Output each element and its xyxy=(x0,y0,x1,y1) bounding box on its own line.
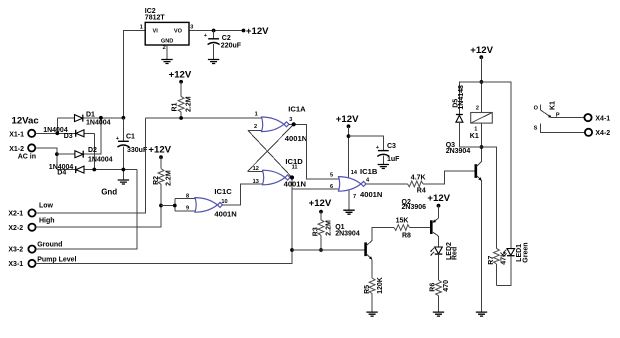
svg-text:AC in: AC in xyxy=(18,154,36,161)
terminal X4-2 xyxy=(585,129,592,136)
svg-text:1N4004: 1N4004 xyxy=(88,157,113,164)
node D1/D2 cathodes junction xyxy=(99,116,103,120)
svg-text:X1-1: X1-1 xyxy=(9,131,24,138)
wire contact to X4-1 xyxy=(552,117,585,119)
wire Q1 collector to R8 xyxy=(372,228,394,241)
terminal X2-2 xyxy=(28,224,35,231)
svg-text:+12V: +12V xyxy=(148,144,171,155)
resistor R2 2.2M xyxy=(153,157,173,205)
node X1-2/D2 junction xyxy=(55,152,59,156)
node C1/ground tap on DC- rail xyxy=(122,168,126,172)
wire LED1 branch from tap xyxy=(481,82,510,249)
svg-text:1N4148: 1N4148 xyxy=(458,85,465,110)
svg-text:11: 11 xyxy=(292,165,298,171)
svg-text:470: 470 xyxy=(443,280,450,292)
svg-text:R7: R7 xyxy=(488,256,495,265)
terminal X2-1 xyxy=(28,209,35,216)
svg-text:4001N: 4001N xyxy=(284,179,306,188)
svg-text:C2: C2 xyxy=(222,35,231,42)
svg-text:8: 8 xyxy=(186,194,189,200)
SECTION: gates xyxy=(145,70,400,252)
SECTION: right xyxy=(335,45,610,316)
svg-text:+12V: +12V xyxy=(309,198,332,209)
svg-text:7: 7 xyxy=(353,194,356,200)
terminal X4-1 xyxy=(584,114,591,121)
wire LED2 to R6 xyxy=(438,254,440,280)
capacitor C2 220uF xyxy=(204,33,242,49)
wire Pump Level to latch output node xyxy=(36,178,292,264)
svg-text:D4: D4 xyxy=(57,169,66,176)
svg-text:D2: D2 xyxy=(88,147,97,154)
svg-text:1: 1 xyxy=(255,112,258,118)
svg-text:High: High xyxy=(39,217,55,224)
wire D5 branch top xyxy=(459,82,481,114)
wire IC1B output to R4 xyxy=(366,183,408,185)
wire D3 anode riser xyxy=(93,133,95,169)
svg-text:R5: R5 xyxy=(364,285,371,294)
wire DC+ rail xyxy=(57,117,123,119)
svg-text:1: 1 xyxy=(140,24,143,30)
svg-text:10: 10 xyxy=(221,199,227,205)
capacitor C1 330uF xyxy=(116,134,148,155)
wire C2 to ground xyxy=(213,44,215,59)
svg-text:X3-1: X3-1 xyxy=(8,261,23,268)
wire latch set row to IC1A pin 1 xyxy=(145,117,262,119)
ground under IC1B pin 7 xyxy=(343,210,354,214)
svg-text:X1-2: X1-2 xyxy=(9,146,24,153)
wire D2 row xyxy=(57,118,101,154)
wire Q3 emitter to ground xyxy=(481,181,483,312)
svg-text:1uF: 1uF xyxy=(387,156,400,163)
junction C2 tap xyxy=(212,29,216,33)
node R3 bottom junction xyxy=(319,248,323,252)
resistor R7 47K xyxy=(482,147,508,286)
wire relay bottom to collector node xyxy=(481,123,483,147)
svg-text:D1: D1 xyxy=(86,112,95,119)
node DC+ rail end junction C1/IC2 xyxy=(122,116,126,120)
diode D5 1N4148 xyxy=(452,85,465,122)
wire High sensor to IC1C input xyxy=(36,206,161,228)
svg-text:K1: K1 xyxy=(550,101,557,110)
svg-text:12: 12 xyxy=(253,166,259,172)
node C3 tap junction xyxy=(347,134,351,138)
ground under C3 xyxy=(378,165,389,169)
wire C2 stem xyxy=(213,31,215,39)
ground under C1 xyxy=(118,180,129,184)
node IC1A output junction xyxy=(292,122,296,126)
svg-text:15K: 15K xyxy=(396,217,409,224)
resistor R6 470 xyxy=(429,280,450,312)
relay contact K1 xyxy=(534,101,585,133)
node relay/D5/R7/collector junction xyxy=(480,145,484,149)
ground under R6 xyxy=(433,312,444,316)
node D5/LED1 tap junction xyxy=(480,80,484,84)
svg-text:R4: R4 xyxy=(417,188,426,195)
svg-text:IC1A: IC1A xyxy=(288,105,306,114)
svg-text:4.7K: 4.7K xyxy=(411,174,426,181)
svg-text:Red: Red xyxy=(452,247,459,260)
svg-text:VO: VO xyxy=(174,28,183,34)
wire C3 tap xyxy=(349,136,384,150)
wire R2 junction to IC1C tied inputs xyxy=(161,205,175,207)
svg-text:GND: GND xyxy=(161,39,173,45)
wire D5 bottom to collector node xyxy=(459,122,481,147)
capacitor C3 1uF xyxy=(376,143,400,163)
svg-text:R8: R8 xyxy=(402,233,411,240)
svg-text:220uF: 220uF xyxy=(221,42,242,49)
wire Q2 collector to LED2 xyxy=(438,236,440,247)
svg-text:Ground: Ground xyxy=(37,241,62,248)
svg-text:3: 3 xyxy=(289,117,292,123)
svg-text:14: 14 xyxy=(351,170,358,176)
svg-text:+12V: +12V xyxy=(427,193,450,204)
svg-text:1N4004: 1N4004 xyxy=(86,120,111,127)
wire Q3 collector up to relay node xyxy=(481,147,483,161)
svg-text:4001N: 4001N xyxy=(285,134,307,143)
node tie bar feed junction xyxy=(173,204,177,208)
wire IC1D pin 12 stub xyxy=(248,170,264,172)
node R2 bottom / High riser junction xyxy=(159,204,163,208)
node IC1D output junction xyxy=(290,175,294,179)
svg-text:Green: Green xyxy=(522,242,529,262)
SECTION: bridge xyxy=(8,112,292,268)
wire DC- rail to X3-2 Ground terminal xyxy=(36,170,138,250)
resistor R8 15K xyxy=(394,217,411,239)
NOR gate IC1B 4001N xyxy=(330,167,382,200)
svg-text:2N3906: 2N3906 xyxy=(402,204,427,211)
wire IC1D output stub xyxy=(290,177,292,179)
svg-text:X3-2: X3-2 xyxy=(8,247,23,254)
ground under IC2 xyxy=(161,60,172,64)
wire C3 to ground xyxy=(382,156,384,165)
relay coil K1 xyxy=(470,105,493,139)
wire R4 to Q3 base xyxy=(423,171,475,184)
svg-text:IC1B: IC1B xyxy=(360,167,378,176)
svg-text:C3: C3 xyxy=(387,143,396,150)
svg-text:7812T: 7812T xyxy=(145,15,166,22)
wire X1-2 row xyxy=(35,148,57,170)
svg-text:VI: VI xyxy=(153,28,159,34)
diode D1 1N4004 xyxy=(75,112,111,127)
svg-text:4001N: 4001N xyxy=(214,209,236,218)
IC2 7812T regulator xyxy=(140,8,194,51)
wire C1 bottom to DC- rail and ground xyxy=(122,146,124,179)
node D3/D4 anodes junction xyxy=(92,168,96,172)
ground under R5 xyxy=(366,312,377,316)
resistor R1 2.2M xyxy=(172,82,193,118)
wire VO output of IC2 to +12V xyxy=(189,30,244,32)
wire IC1B pin 14 power stem xyxy=(348,126,350,178)
wire IC2 GND pin to ground xyxy=(166,45,168,59)
NOR gate IC1A 4001N xyxy=(254,105,307,143)
NOR gate IC1C 4001N xyxy=(186,187,237,219)
svg-text:4001N: 4001N xyxy=(360,190,382,199)
svg-text:120K: 120K xyxy=(377,277,384,294)
wire riser X1-1 to D1 xyxy=(56,118,58,134)
svg-text:+12V: +12V xyxy=(470,45,493,56)
wire latch output to Q1 base xyxy=(292,249,364,251)
svg-text:5: 5 xyxy=(330,172,333,178)
wire DC- rail xyxy=(57,169,137,171)
terminal X1-2 xyxy=(28,144,35,151)
svg-text:3: 3 xyxy=(190,24,193,30)
svg-text:6: 6 xyxy=(330,184,333,190)
svg-text:13: 13 xyxy=(253,179,259,185)
wire IC1B pin 7 to ground xyxy=(348,191,350,210)
svg-text:IC1C: IC1C xyxy=(214,187,232,196)
svg-text:2.2M: 2.2M xyxy=(326,220,333,236)
svg-text:D3: D3 xyxy=(64,133,73,140)
ground under Q3 emitter xyxy=(476,312,487,316)
svg-text:C1: C1 xyxy=(126,134,135,141)
svg-text:330uF: 330uF xyxy=(127,147,148,154)
diode D2 1N4004 xyxy=(75,147,113,163)
svg-text:R3: R3 xyxy=(313,227,320,236)
svg-text:2: 2 xyxy=(254,124,257,130)
transistor Q1 2N3904 xyxy=(335,224,372,259)
LED LED2 Red xyxy=(430,242,459,260)
transistor Q2 2N3906 xyxy=(402,199,439,236)
svg-text:R1: R1 xyxy=(172,102,179,111)
svg-text:+12V: +12V xyxy=(169,70,192,81)
wire IC1A output stub xyxy=(289,124,340,179)
ground under C2 xyxy=(208,60,219,64)
svg-text:Pump Level: Pump Level xyxy=(37,256,76,263)
svg-text:2.2M: 2.2M xyxy=(185,96,192,112)
node R1 bottom junction xyxy=(179,116,183,120)
diode D3 1N4004 xyxy=(43,127,84,140)
svg-text:2.2M: 2.2M xyxy=(166,170,173,186)
svg-text:2N3904: 2N3904 xyxy=(335,230,360,237)
wire VI input from bridge rail up to IC2 xyxy=(123,31,145,118)
diode D4 1N4004 xyxy=(49,164,84,177)
svg-text:X4-1: X4-1 xyxy=(595,116,610,123)
wire X1-1 row xyxy=(35,132,94,134)
wire LED1 to R7 bottom xyxy=(496,256,510,286)
svg-text:O: O xyxy=(534,106,539,112)
svg-text:X2-2: X2-2 xyxy=(8,225,23,232)
svg-text:2: 2 xyxy=(476,105,479,111)
svg-text:12Vac: 12Vac xyxy=(12,116,40,127)
svg-text:Low: Low xyxy=(39,202,54,209)
svg-text:47K: 47K xyxy=(500,252,507,265)
wire Q1 emitter to R5 xyxy=(371,259,373,278)
terminal X1-1 xyxy=(28,130,35,137)
resistor R3 2.2M xyxy=(313,212,333,250)
LED LED1 Green xyxy=(503,242,529,262)
wire IC1C input tie bar xyxy=(175,199,196,212)
svg-text:X4-2: X4-2 xyxy=(595,130,610,137)
svg-text:K1: K1 xyxy=(470,133,479,140)
svg-text:X2-1: X2-1 xyxy=(8,211,23,218)
wire IC1C output to IC1D pin 13 xyxy=(223,184,264,205)
NOR gate IC1D 4001N xyxy=(253,157,306,189)
wire Low sensor to latch set input xyxy=(36,118,146,213)
svg-text:1: 1 xyxy=(474,126,477,132)
resistor R4 4.7K xyxy=(408,174,426,194)
wire C1 stem from rail xyxy=(122,118,124,141)
node pump level riser junction at Q1 base row xyxy=(290,248,294,252)
svg-text:+12V: +12V xyxy=(336,114,359,125)
svg-text:+12V: +12V xyxy=(246,26,269,37)
transistor Q3 2N3904 xyxy=(446,142,482,181)
svg-text:R6: R6 xyxy=(429,283,436,292)
svg-text:S: S xyxy=(534,126,538,132)
node +12V supply dot after C2 xyxy=(242,29,246,33)
svg-text:2: 2 xyxy=(163,45,166,51)
svg-text:R2: R2 xyxy=(153,176,160,185)
wire cross-couple IC1A pin2 to IC1D output xyxy=(248,131,292,178)
resistor R5 120K xyxy=(364,277,384,312)
wire IC1D output to IC1B pin 6 xyxy=(292,188,340,190)
terminal X3-2 xyxy=(28,246,35,253)
wire cross-couple IC1D pin12 to IC1A output xyxy=(248,124,294,171)
wire R8 to Q2 base xyxy=(410,227,431,229)
terminal X3-1 xyxy=(28,260,35,267)
node X1-1/D1 junction xyxy=(55,131,59,135)
svg-text:Gnd: Gnd xyxy=(101,187,117,196)
wire relay +12V feed xyxy=(480,57,482,112)
wire IC1A pin 2 stub xyxy=(248,130,263,132)
svg-text:9: 9 xyxy=(186,205,189,211)
SECTION: power supply top xyxy=(123,8,269,118)
svg-text:2N3904: 2N3904 xyxy=(446,148,471,155)
